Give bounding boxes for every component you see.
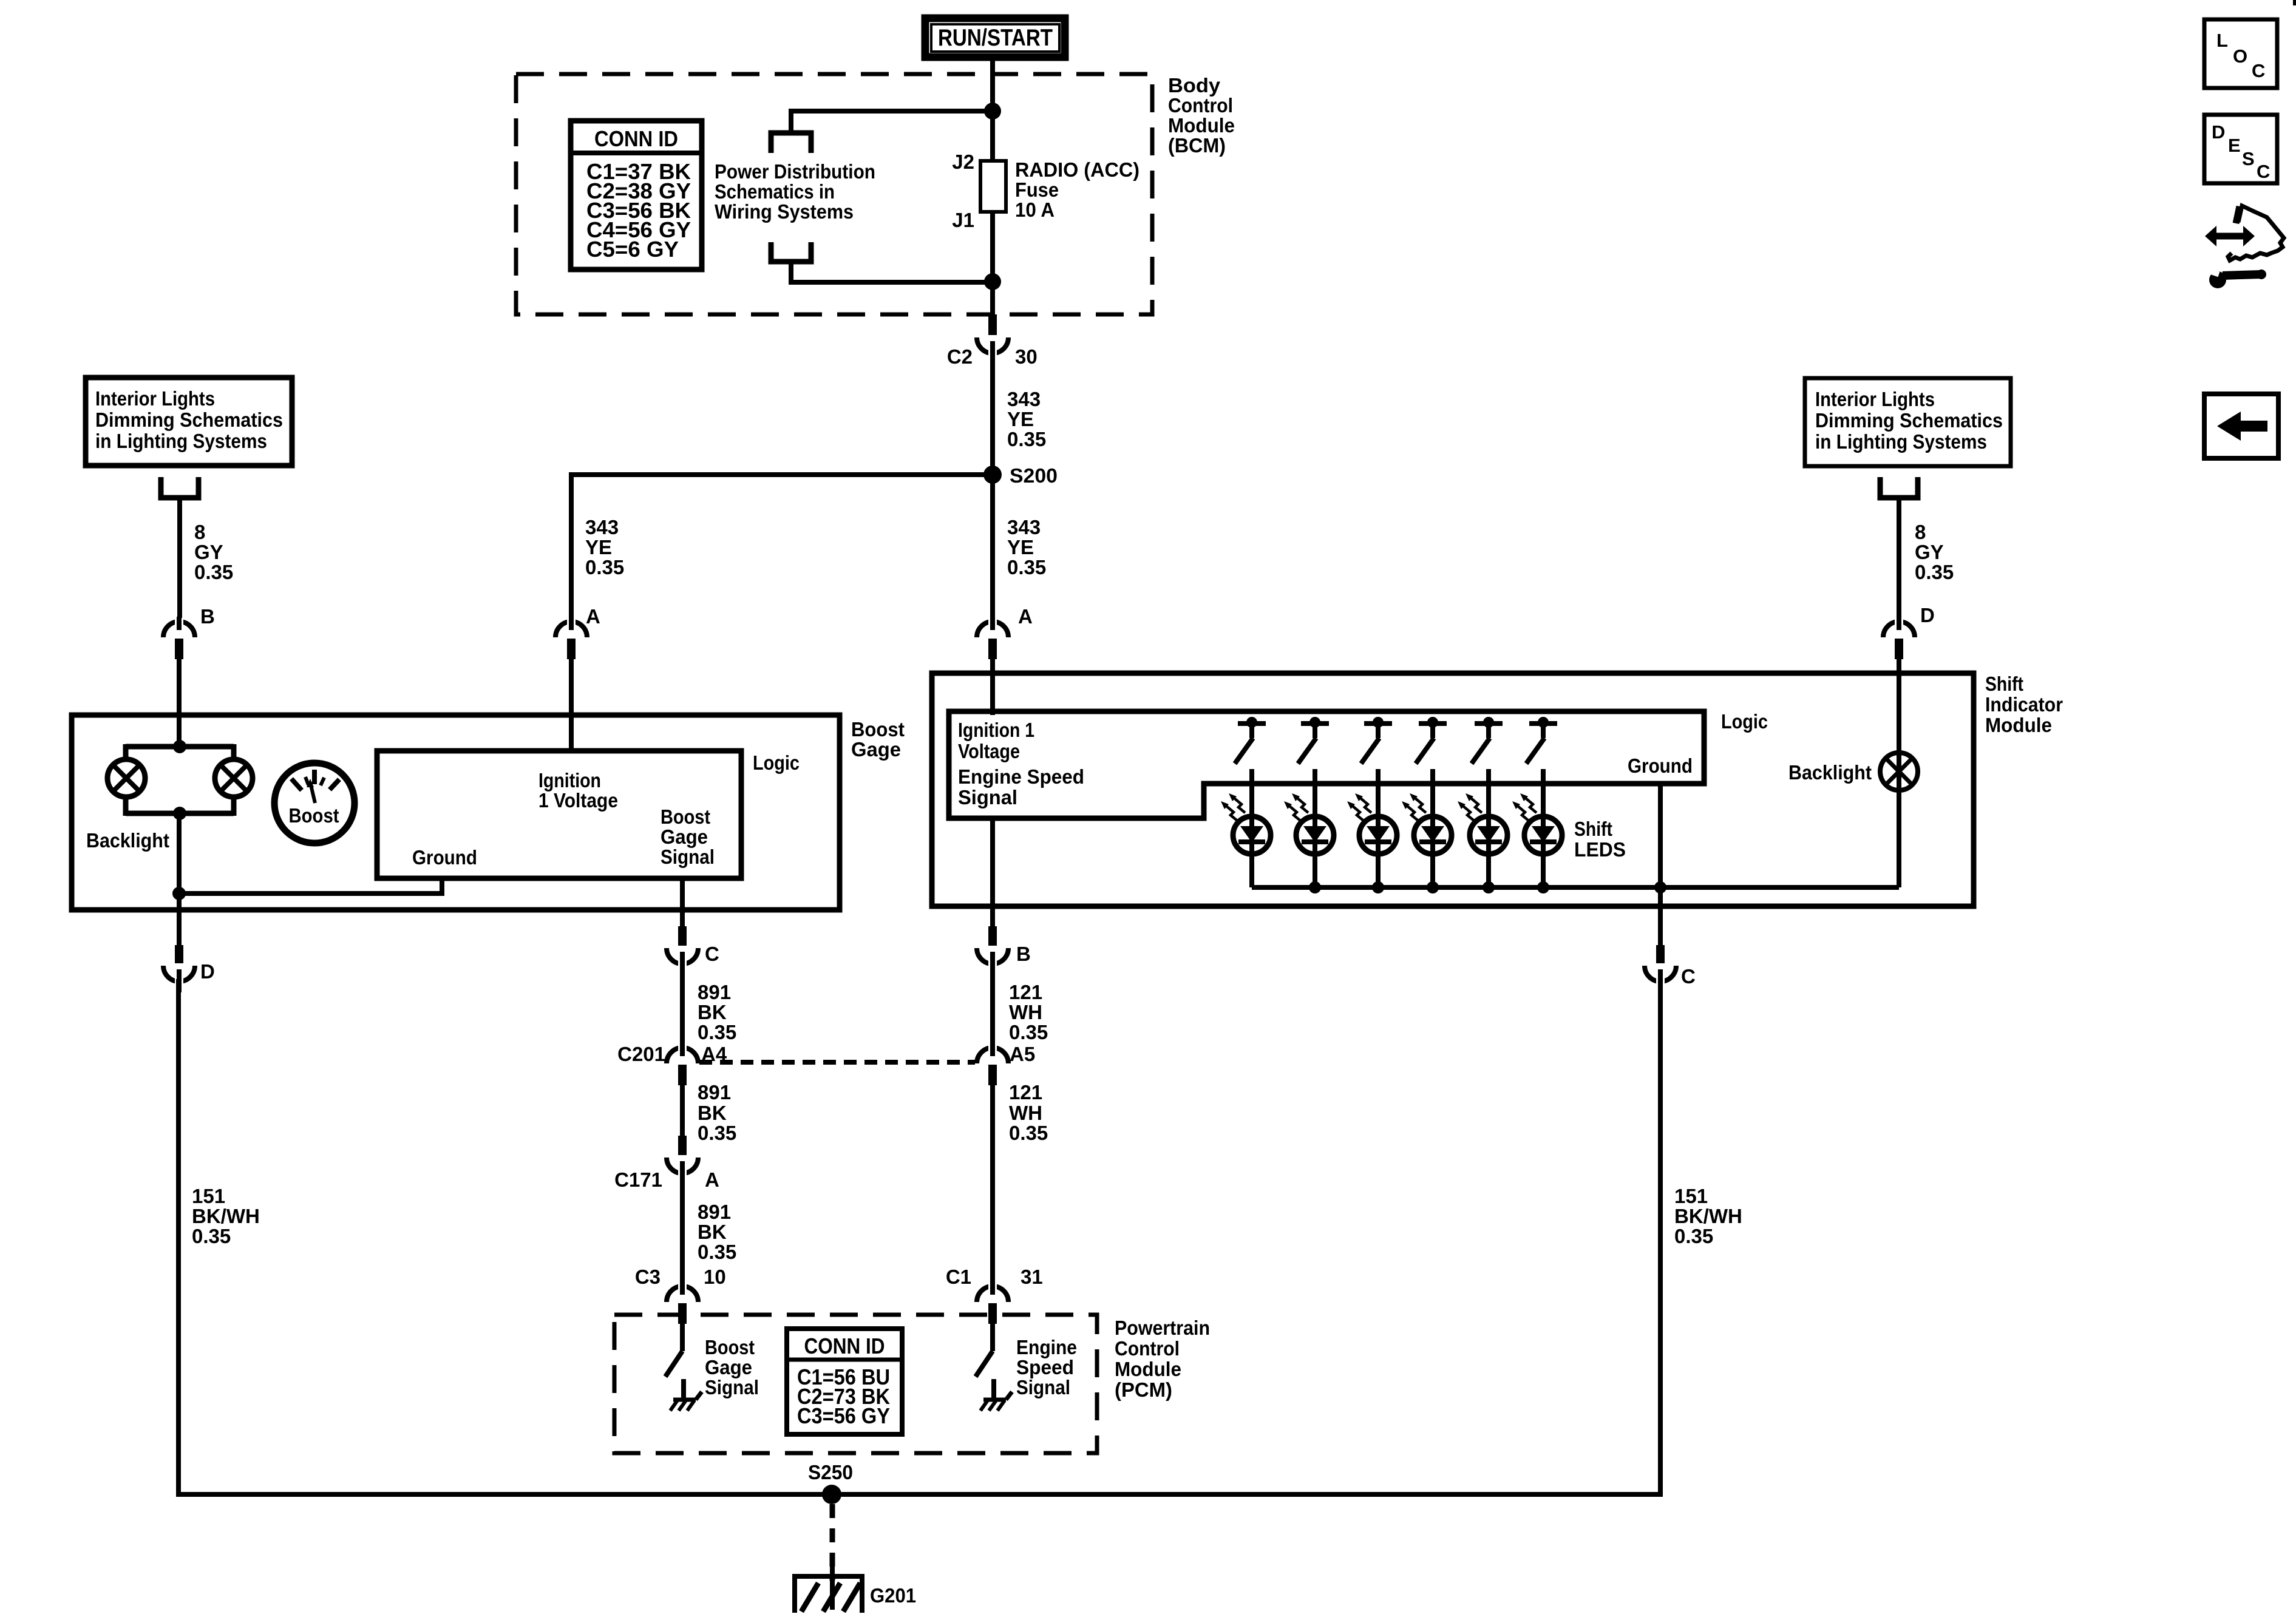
icon back-arrow box xyxy=(2204,394,2278,458)
label 8 GY 0.35 (right) xyxy=(1915,521,1954,583)
svg-text:BK/WH: BK/WH xyxy=(1674,1205,1742,1227)
ground at boost gage signal switch xyxy=(681,1379,686,1398)
wire 151 BK/WH right xyxy=(1658,985,1663,1497)
svg-text:YE: YE xyxy=(585,536,612,558)
svg-text:0.35: 0.35 xyxy=(698,1021,736,1043)
svg-text:Ground: Ground xyxy=(412,846,477,869)
svg-text:Ground: Ground xyxy=(1628,754,1693,777)
icon DESC box xyxy=(2204,115,2277,183)
svg-text:Boost: Boost xyxy=(661,805,710,828)
wire fuse to BCM bottom xyxy=(990,212,995,314)
wire D into shift module xyxy=(1897,659,1901,753)
svg-text:Backlight: Backlight xyxy=(86,829,169,852)
svg-text:Gage: Gage xyxy=(661,825,708,848)
svg-text:E: E xyxy=(2228,135,2241,156)
connector C1 pin 31 xyxy=(977,1286,1008,1302)
svg-text:C: C xyxy=(1681,965,1696,988)
wire 121 WH segment 2 xyxy=(990,1084,995,1287)
svg-text:151: 151 xyxy=(192,1185,225,1207)
wire from lower bracket to fuse bottom xyxy=(789,262,793,285)
svg-text:BK/WH: BK/WH xyxy=(192,1205,260,1227)
connector C3 pin 10 xyxy=(667,1286,698,1302)
svg-text:BK: BK xyxy=(698,1001,727,1023)
svg-text:31: 31 xyxy=(1021,1266,1043,1288)
svg-text:LEDS: LEDS xyxy=(1574,838,1626,861)
svg-text:0.35: 0.35 xyxy=(1009,1021,1048,1043)
label Shift Indicator Module xyxy=(1985,673,2063,736)
connector B under shift module xyxy=(990,906,995,926)
svg-text:A: A xyxy=(705,1168,719,1191)
splice S200 dot xyxy=(983,466,1002,484)
svg-text:Ignition 1: Ignition 1 xyxy=(958,719,1034,741)
shift logic box xyxy=(949,711,1704,818)
svg-text:J2: J2 xyxy=(952,151,974,173)
svg-text:0.35: 0.35 xyxy=(1007,556,1046,578)
svg-text:0.35: 0.35 xyxy=(1007,428,1046,450)
svg-text:YE: YE xyxy=(1007,408,1034,430)
svg-text:C: C xyxy=(2252,60,2265,81)
svg-text:C3: C3 xyxy=(635,1266,661,1288)
svg-text:D: D xyxy=(2212,121,2225,143)
junction dot at fuse bottom xyxy=(984,273,1001,290)
svg-text:343: 343 xyxy=(1007,388,1041,410)
icon LOC box xyxy=(2204,19,2277,88)
svg-text:B: B xyxy=(1016,943,1031,965)
svg-text:C: C xyxy=(705,943,719,965)
ref box Interior Lights (left) xyxy=(86,378,292,466)
svg-text:Module: Module xyxy=(1168,114,1235,137)
svg-text:8: 8 xyxy=(194,521,205,543)
svg-text:J1: J1 xyxy=(952,209,974,231)
svg-text:Wiring Systems: Wiring Systems xyxy=(715,200,854,223)
svg-text:10: 10 xyxy=(704,1266,726,1288)
off-page bracket lower xyxy=(771,242,811,262)
label Boost Gage xyxy=(851,718,905,761)
svg-text:Signal: Signal xyxy=(705,1376,759,1398)
svg-text:WH: WH xyxy=(1009,1001,1042,1023)
svg-text:(BCM): (BCM) xyxy=(1168,134,1226,157)
svg-text:O: O xyxy=(2233,46,2247,67)
wire S200 to left branch xyxy=(569,472,993,477)
label Shift LEDS xyxy=(1574,818,1626,861)
svg-text:Shift: Shift xyxy=(1574,818,1612,840)
label RADIO (ACC) Fuse 10 A xyxy=(1015,158,1140,221)
dashed wire S250 to G201 xyxy=(830,1504,835,1581)
svg-text:0.35: 0.35 xyxy=(1915,561,1954,583)
label Boost Gage Signal (PCM) xyxy=(705,1336,759,1398)
svg-text:Interior Lights: Interior Lights xyxy=(95,387,215,410)
backlight lamp rails xyxy=(126,744,234,816)
svg-text:BK: BK xyxy=(698,1102,727,1124)
shift driver switches x6 xyxy=(1235,717,1557,764)
svg-text:121: 121 xyxy=(1009,981,1042,1003)
lamp backlight shift xyxy=(1897,753,1901,887)
svg-text:A5: A5 xyxy=(1010,1043,1035,1065)
svg-text:G201: G201 xyxy=(870,1584,916,1607)
svg-text:Indicator: Indicator xyxy=(1985,693,2063,716)
svg-text:S: S xyxy=(2242,148,2255,169)
svg-text:891: 891 xyxy=(698,1201,731,1223)
wire 891 BK segment 1 xyxy=(680,968,685,1048)
connector A shift module xyxy=(977,622,1008,637)
svg-text:891: 891 xyxy=(698,1081,731,1103)
ground bus wire xyxy=(178,1492,1660,1497)
power node RUN/START box xyxy=(925,18,1065,57)
wire to upper off-page bracket xyxy=(791,109,995,114)
junction dot lamp top xyxy=(173,740,186,753)
svg-text:30: 30 xyxy=(1015,345,1038,368)
svg-text:10 A: 10 A xyxy=(1015,198,1055,221)
wire S200 down right branch xyxy=(990,475,995,623)
label Engine Speed Signal (PCM) xyxy=(1016,1336,1077,1398)
svg-text:S250: S250 xyxy=(808,1461,853,1483)
svg-text:151: 151 xyxy=(1674,1185,1708,1207)
svg-text:0.35: 0.35 xyxy=(1674,1225,1713,1247)
svg-text:in Lighting Systems: in Lighting Systems xyxy=(1815,430,1987,453)
svg-text:Module: Module xyxy=(1985,714,2052,736)
wire engine speed from logic box xyxy=(990,816,995,906)
junction dot boost ground xyxy=(172,887,186,900)
label Body Control Module (BCM) xyxy=(1168,74,1235,157)
off-page bracket upper xyxy=(771,133,811,153)
boost logic box xyxy=(377,751,741,878)
connector B boost backlight xyxy=(163,622,195,637)
svg-text:D: D xyxy=(1920,604,1935,626)
svg-text:Ignition: Ignition xyxy=(538,769,601,792)
label Boost Gage Signal xyxy=(661,805,715,868)
PCM CONN ID table xyxy=(787,1329,902,1434)
label Engine Speed Signal (shift) xyxy=(958,765,1084,808)
wire A to boost logic box xyxy=(569,659,574,753)
svg-text:Gage: Gage xyxy=(851,738,901,761)
svg-text:C2: C2 xyxy=(947,345,973,368)
svg-text:Schematics in: Schematics in xyxy=(715,180,835,203)
svg-text:Signal: Signal xyxy=(661,846,715,868)
ground G201 xyxy=(795,1564,862,1613)
wire 891 BK segment 2 xyxy=(680,1084,685,1136)
svg-text:Gage: Gage xyxy=(705,1356,752,1378)
switch boost gage signal input xyxy=(665,1323,682,1377)
BCM CONN ID table xyxy=(571,121,702,269)
svg-text:Boost: Boost xyxy=(851,718,905,741)
connector C under shift module xyxy=(1658,906,1663,945)
wire 343 YE C2 to S200 xyxy=(990,362,995,477)
svg-text:YE: YE xyxy=(1007,536,1034,558)
connector D under boost gage xyxy=(177,910,182,945)
wire backlight to D xyxy=(177,813,182,910)
svg-text:Dimming Schematics: Dimming Schematics xyxy=(1815,409,2003,432)
off-page bracket left interior lights xyxy=(161,477,199,498)
svg-text:Module: Module xyxy=(1115,1358,1181,1380)
label 121 WH 0.35 (2) xyxy=(1009,1081,1048,1144)
svg-text:Shift: Shift xyxy=(1985,673,2023,695)
label 343 YE 0.35 (left branch) xyxy=(585,516,624,578)
wire 8 GY left xyxy=(177,498,182,623)
lamp backlight right xyxy=(215,759,253,797)
svg-text:Interior Lights: Interior Lights xyxy=(1815,388,1935,410)
connector C2 pin 30 xyxy=(988,314,997,335)
wire 151 BK/WH left xyxy=(176,979,181,1497)
label Power Distribution Schematics in Wiring Systems xyxy=(715,160,875,223)
wire boost signal down xyxy=(680,878,685,910)
svg-text:0.35: 0.35 xyxy=(1009,1122,1048,1144)
svg-text:C: C xyxy=(2257,161,2270,182)
svg-text:A: A xyxy=(586,605,600,628)
connector D shift backlight xyxy=(1883,622,1915,637)
label 8 GY 0.35 (left) xyxy=(194,521,233,583)
boost gauge meter xyxy=(274,763,355,843)
svg-text:C1: C1 xyxy=(946,1266,971,1288)
connector C under boost gage xyxy=(680,910,685,926)
svg-text:0.35: 0.35 xyxy=(194,561,233,583)
ref box Interior Lights (right) xyxy=(1805,378,2011,466)
svg-text:121: 121 xyxy=(1009,1081,1042,1103)
dashed link A4 to A5 xyxy=(699,1060,975,1065)
junction dot lamp bottom xyxy=(173,807,186,820)
svg-text:WH: WH xyxy=(1009,1102,1042,1124)
svg-text:C171: C171 xyxy=(614,1168,662,1191)
svg-text:(PCM): (PCM) xyxy=(1115,1378,1172,1401)
PCM dashed box xyxy=(614,1315,1097,1453)
svg-text:Boost: Boost xyxy=(289,804,339,827)
wire boost ground return xyxy=(177,878,444,893)
connector A5 xyxy=(977,1048,1008,1063)
junction dot ground wire on bus xyxy=(1654,881,1666,893)
svg-text:Logic: Logic xyxy=(1721,710,1768,733)
Shift Indicator Module box xyxy=(932,673,1974,906)
svg-text:Fuse: Fuse xyxy=(1015,178,1059,201)
svg-text:8: 8 xyxy=(1915,521,1926,543)
svg-text:GY: GY xyxy=(1915,541,1944,563)
ground at engine speed signal switch xyxy=(991,1379,996,1398)
svg-text:C3=56 GY: C3=56 GY xyxy=(797,1403,890,1428)
fuse RADIO (ACC) 10A xyxy=(980,161,1006,212)
svg-text:Power Distribution: Power Distribution xyxy=(715,160,875,183)
svg-text:Powertrain: Powertrain xyxy=(1115,1317,1210,1339)
icon jump arrow-wrench xyxy=(2205,206,2284,288)
label 151 BK/WH 0.35 (right) xyxy=(1674,1185,1742,1247)
svg-text:0.35: 0.35 xyxy=(192,1225,231,1247)
wire 8 GY right xyxy=(1897,498,1901,623)
svg-text:Signal: Signal xyxy=(958,786,1017,808)
svg-text:S200: S200 xyxy=(1010,464,1058,487)
switch engine speed signal input xyxy=(976,1323,993,1377)
svg-text:L: L xyxy=(2216,30,2228,51)
off-page bracket right interior lights xyxy=(1880,477,1918,498)
label 891 BK 0.35 (3) xyxy=(698,1201,736,1263)
label 891 BK 0.35 (1) xyxy=(698,981,736,1043)
svg-text:Engine Speed: Engine Speed xyxy=(958,765,1084,788)
svg-text:0.35: 0.35 xyxy=(585,556,624,578)
svg-text:Engine: Engine xyxy=(1016,1336,1077,1358)
label 343 YE 0.35 (right branch) xyxy=(1007,516,1046,578)
label 151 BK/WH 0.35 (left) xyxy=(192,1185,260,1247)
svg-text:Backlight: Backlight xyxy=(1788,761,1872,784)
wire shift ground xyxy=(1658,784,1663,906)
svg-text:Control: Control xyxy=(1168,94,1233,117)
svg-text:Body: Body xyxy=(1168,74,1221,97)
svg-text:GY: GY xyxy=(194,541,223,563)
svg-text:RUN/START: RUN/START xyxy=(938,25,1053,51)
svg-text:C5=6 GY: C5=6 GY xyxy=(586,237,679,262)
svg-text:D: D xyxy=(200,960,215,983)
LED cathode bus xyxy=(1252,885,1899,890)
lamp backlight left xyxy=(107,759,145,797)
svg-text:CONN ID: CONN ID xyxy=(804,1334,885,1358)
corner crop mark xyxy=(2293,0,2296,5)
svg-text:CONN ID: CONN ID xyxy=(594,126,678,151)
wire 891 BK segment 3 xyxy=(680,1170,685,1287)
svg-text:Control: Control xyxy=(1115,1337,1180,1360)
label 121 WH 0.35 (1) xyxy=(1009,981,1048,1043)
Boost Gage module box xyxy=(72,715,840,910)
wire RUN/START to fuse xyxy=(990,57,995,163)
svg-text:343: 343 xyxy=(1007,516,1041,538)
svg-text:Signal: Signal xyxy=(1016,1376,1070,1398)
label Ignition 1 Voltage (shift) xyxy=(958,719,1034,762)
svg-text:RADIO (ACC): RADIO (ACC) xyxy=(1015,158,1140,181)
junction dot at fuse top xyxy=(984,103,1001,120)
svg-text:0.35: 0.35 xyxy=(698,1122,736,1144)
svg-text:BK: BK xyxy=(698,1221,727,1243)
label 891 BK 0.35 (2) xyxy=(698,1081,736,1144)
svg-text:343: 343 xyxy=(585,516,619,538)
svg-text:Logic: Logic xyxy=(753,751,800,774)
svg-text:C201: C201 xyxy=(617,1043,665,1065)
shift LEDs x6 xyxy=(1221,769,1562,887)
svg-text:A: A xyxy=(1018,605,1033,628)
label Ignition 1 Voltage (boost) xyxy=(538,769,618,812)
svg-text:B: B xyxy=(200,605,215,628)
wire 121 WH segment 1 xyxy=(990,968,995,1048)
connector C171 A xyxy=(678,1136,687,1155)
label 343 YE 0.35 (upper) xyxy=(1007,388,1046,450)
svg-text:1 Voltage: 1 Voltage xyxy=(538,789,618,812)
wire A to shift logic box xyxy=(990,659,995,715)
splice S250 dot xyxy=(822,1485,841,1504)
svg-text:891: 891 xyxy=(698,981,731,1003)
svg-text:0.35: 0.35 xyxy=(698,1241,736,1263)
svg-text:Dimming Schematics: Dimming Schematics xyxy=(95,408,283,431)
wire B into boost gage xyxy=(177,659,182,748)
label Powertrain Control Module (PCM) xyxy=(1115,1317,1210,1401)
svg-text:Voltage: Voltage xyxy=(958,740,1020,762)
BCM dashed box xyxy=(516,74,1152,314)
connector C201 A4 xyxy=(667,1048,698,1063)
svg-text:in Lighting Systems: in Lighting Systems xyxy=(95,430,267,452)
connector A boost gage xyxy=(555,622,587,637)
svg-text:Boost: Boost xyxy=(705,1336,755,1358)
svg-text:Speed: Speed xyxy=(1016,1356,1074,1378)
